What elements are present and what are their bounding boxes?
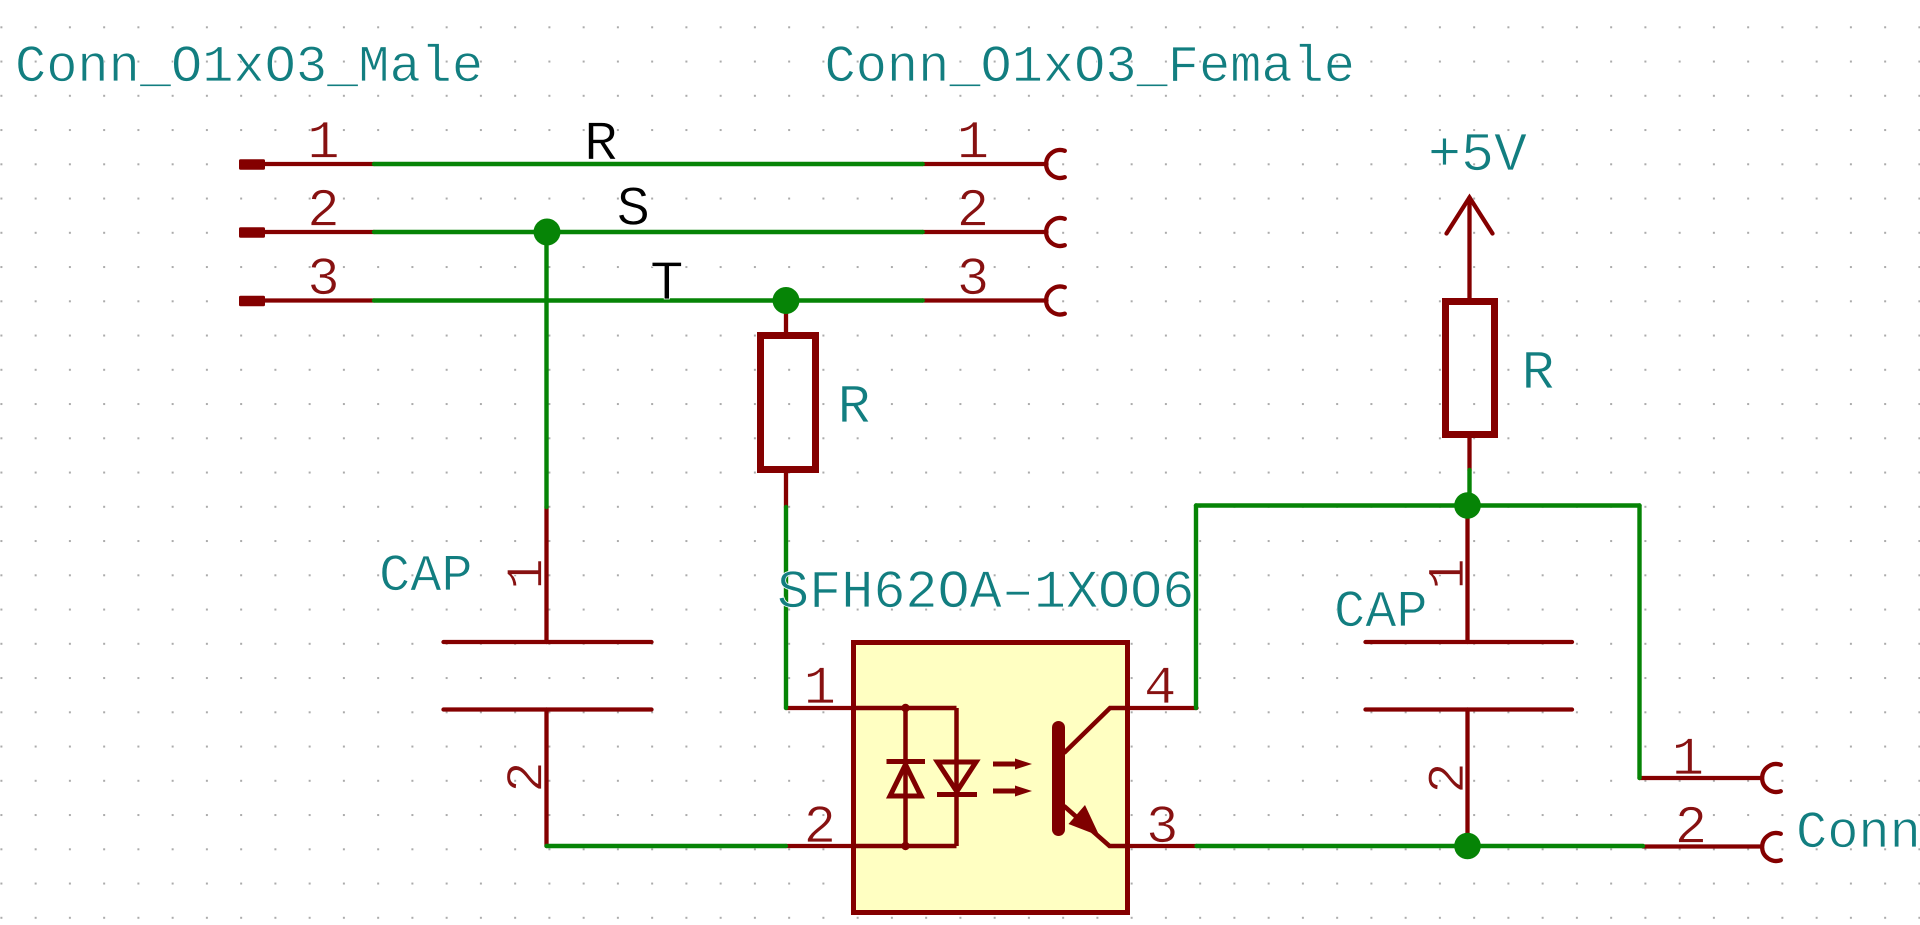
svg-text:1: 1 bbox=[499, 558, 558, 589]
svg-text:3: 3 bbox=[957, 250, 989, 311]
svg-text:2: 2 bbox=[1675, 799, 1707, 860]
svg-text:S: S bbox=[617, 178, 651, 242]
svg-text:R: R bbox=[838, 376, 871, 439]
svg-text:2: 2 bbox=[1420, 762, 1479, 793]
svg-text:R: R bbox=[584, 112, 618, 176]
svg-text:Conn_O1xO3_Male: Conn_O1xO3_Male bbox=[15, 38, 483, 97]
svg-text:1: 1 bbox=[804, 659, 836, 720]
svg-text:Conn_O1xO2_Female: Conn_O1xO2_Female bbox=[1796, 804, 1920, 863]
svg-text:T: T bbox=[650, 252, 684, 316]
svg-text:SFH62OA–1XOO6: SFH62OA–1XOO6 bbox=[777, 563, 1194, 624]
svg-text:+5V: +5V bbox=[1428, 124, 1527, 187]
svg-text:1: 1 bbox=[1420, 558, 1479, 589]
svg-text:Conn_O1xO3_Female: Conn_O1xO3_Female bbox=[825, 38, 1356, 97]
svg-text:R: R bbox=[1522, 342, 1555, 405]
svg-text:1: 1 bbox=[307, 114, 339, 175]
svg-text:CAP: CAP bbox=[1334, 583, 1428, 642]
svg-text:2: 2 bbox=[499, 761, 558, 792]
svg-text:2: 2 bbox=[804, 798, 836, 859]
svg-text:4: 4 bbox=[1144, 659, 1176, 720]
svg-text:CAP: CAP bbox=[379, 547, 473, 606]
svg-text:3: 3 bbox=[1146, 798, 1178, 859]
svg-text:1: 1 bbox=[957, 114, 989, 175]
svg-text:1: 1 bbox=[1672, 730, 1704, 791]
svg-text:2: 2 bbox=[957, 182, 989, 243]
svg-text:3: 3 bbox=[307, 250, 339, 311]
svg-text:2: 2 bbox=[307, 182, 339, 243]
